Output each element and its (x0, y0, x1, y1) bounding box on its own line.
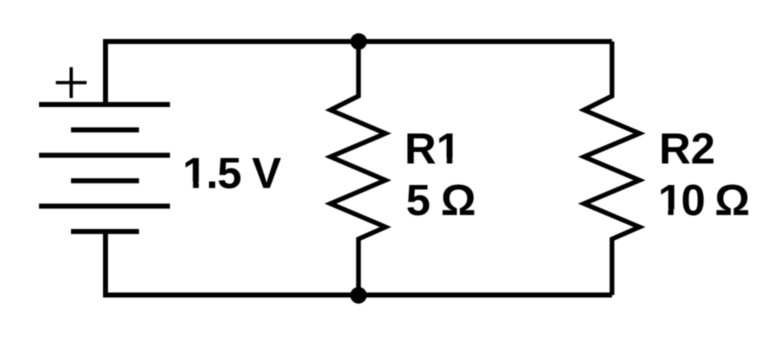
svg-text:R1: R1 (405, 125, 461, 174)
wire top horizontal (106, 42, 613, 45)
battery B1 plate long 2 (39, 153, 170, 158)
label R1 (405, 125, 461, 174)
wire bottom horizontal (106, 293, 613, 296)
node junction dot bottom (350, 287, 367, 304)
battery B1 plate short 3 (71, 229, 139, 234)
wire battery top lead (103, 42, 108, 105)
battery B1 plate long 3 (39, 204, 170, 209)
value label 10 ohm (658, 176, 749, 225)
svg-text:10 Ω: 10 Ω (658, 176, 749, 225)
battery B1 plate short 1 (71, 127, 139, 132)
resistor R2 zigzag (584, 42, 640, 296)
plus sign polarity mark (56, 67, 87, 98)
resistor R1 zigzag (331, 42, 386, 296)
svg-text:R2: R2 (659, 125, 715, 174)
battery B1 plate short 2 (71, 178, 139, 183)
svg-text:5 Ω: 5 Ω (406, 176, 475, 225)
battery value label 1.5 V (183, 149, 282, 198)
node junction dot top (350, 33, 367, 50)
battery B1 plate long 1 (39, 102, 170, 107)
svg-text:1.5 V: 1.5 V (183, 149, 282, 198)
wire battery bottom lead (103, 232, 108, 296)
